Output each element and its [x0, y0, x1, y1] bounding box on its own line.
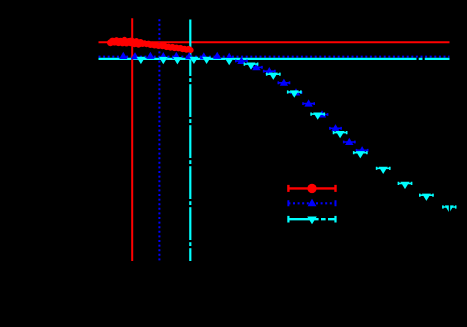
blue dotted vertical line [158, 19, 160, 261]
blue data series markers [119, 52, 368, 154]
red vertical line [131, 18, 133, 261]
legend entry 1: red line + circle [288, 184, 335, 193]
legend entry 3: cyan dash-dot line + triangle-down [288, 216, 335, 224]
red horizontal fit line [99, 41, 450, 43]
black axis frame splitting edge marker [449, 202, 450, 215]
cyan dash-dot horizontal fit line [99, 58, 450, 60]
legend entry 2: blue dotted line + triangle-up [288, 199, 335, 207]
cyan dash-dot vertical line [189, 20, 191, 262]
cyan data series markers [136, 57, 455, 215]
blue dotted horizontal fit line [99, 56, 450, 58]
red data points band [107, 37, 194, 53]
